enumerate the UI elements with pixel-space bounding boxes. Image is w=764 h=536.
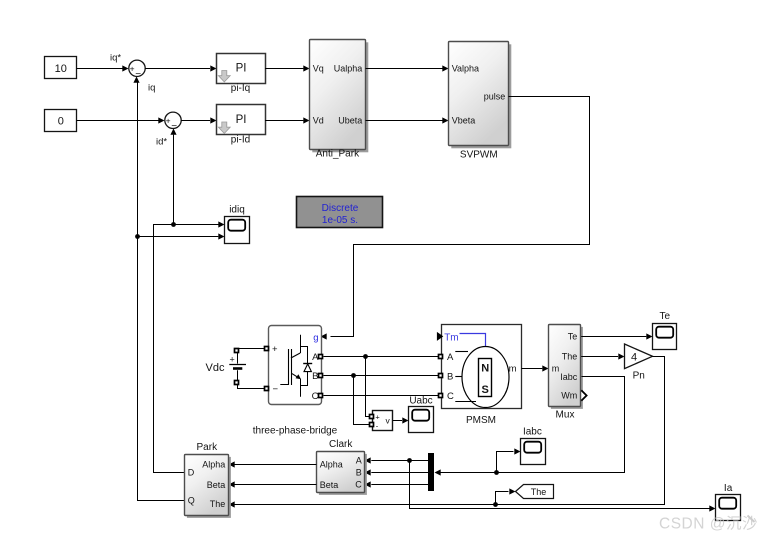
svg-text:D: D xyxy=(188,468,195,478)
svg-text:Uabc: Uabc xyxy=(409,396,432,407)
svg-text:Anti_Park: Anti_Park xyxy=(316,149,360,160)
scope block Ia xyxy=(716,495,741,521)
wire bridge B to PMSM B xyxy=(324,375,439,377)
scope block Te xyxy=(653,324,677,350)
svg-text:Ualpha: Ualpha xyxy=(334,64,363,74)
svg-text:+: + xyxy=(272,344,278,355)
wire Mux Te to Te scope xyxy=(581,333,652,339)
svg-text:Iabc: Iabc xyxy=(523,426,542,437)
svg-text:Mux: Mux xyxy=(556,410,575,421)
svg-text:idiq: idiq xyxy=(229,205,245,216)
svg-text:iq*: iq* xyxy=(110,53,121,64)
svg-text:Valpha: Valpha xyxy=(452,64,479,74)
svg-text:PMSM: PMSM xyxy=(466,415,496,426)
wire iq feedback: Park Q output up to sum1, branch to idiq input 2 xyxy=(133,77,224,501)
svg-text:0: 0 xyxy=(58,115,64,127)
svg-text:S: S xyxy=(482,384,489,396)
wire bridge A to PMSM A xyxy=(324,356,439,358)
svg-text:m: m xyxy=(552,364,560,374)
wire branch The line to Goto tag xyxy=(496,488,516,504)
svg-text:Ia: Ia xyxy=(724,483,733,494)
PI controller block pi-Id xyxy=(217,105,266,135)
motor block PMSM M1 xyxy=(437,325,522,409)
wire The (electrical angle): Pn output to Park The input xyxy=(229,357,665,508)
svg-text:g: g xyxy=(313,333,318,344)
svg-text:Alpha: Alpha xyxy=(202,459,225,469)
svg-text:C: C xyxy=(447,391,454,402)
wire PMSM m to Mux m xyxy=(521,365,548,371)
PI controller block pi-Iq xyxy=(217,54,266,84)
wire const0 to sum2 xyxy=(77,117,165,123)
svg-text:4: 4 xyxy=(631,351,637,363)
svg-text:pi-Id: pi-Id xyxy=(231,135,250,146)
svg-text:Wm: Wm xyxy=(561,391,577,401)
svg-text:A: A xyxy=(447,352,454,363)
subsystem block Clark U4 xyxy=(317,452,367,495)
annotation block Discrete 1e-05 s. (powergui) xyxy=(297,197,383,228)
wire id feedback: Park D output up to idiq input 1, branch to sum2 xyxy=(154,129,225,473)
junction on phase A xyxy=(363,354,368,359)
wire demux to Clark B xyxy=(365,469,429,475)
junction on phase B xyxy=(351,373,356,378)
power converter block three-phase-bridge xyxy=(265,326,323,405)
svg-text:+: + xyxy=(130,63,135,73)
scope block Iabc xyxy=(521,439,546,465)
svg-text:+: + xyxy=(230,355,235,365)
svg-text:Beta: Beta xyxy=(207,480,226,490)
svg-text:B: B xyxy=(312,371,318,382)
svg-text:CSDN @沉沙: CSDN @沉沙 xyxy=(659,515,758,533)
wire Vdc+ to bridge + xyxy=(237,348,265,350)
svg-text:10: 10 xyxy=(55,63,67,75)
wire VM1 to Uabc scope xyxy=(393,417,409,423)
svg-text:+: + xyxy=(375,413,380,422)
svg-text:The: The xyxy=(531,487,547,497)
IGBT/diode icon inside bridge xyxy=(280,335,312,397)
svg-text:Vbeta: Vbeta xyxy=(452,116,476,126)
wire sum2 to PI pi-Id xyxy=(181,117,216,123)
voltage measurement block VM1 xyxy=(370,411,393,431)
svg-text:Tm: Tm xyxy=(444,332,458,343)
svg-text:m: m xyxy=(509,363,517,374)
svg-text:C: C xyxy=(312,391,319,402)
wire Ubeta to SVPWM Vbeta xyxy=(366,117,449,123)
svg-text:Pn: Pn xyxy=(633,371,645,382)
wire demux to Clark A xyxy=(365,457,429,463)
svg-text:Beta: Beta xyxy=(320,480,339,490)
svg-text:Alpha: Alpha xyxy=(320,459,343,469)
svg-text:v: v xyxy=(386,416,391,426)
goto tag The xyxy=(516,485,554,499)
svg-text:Te: Te xyxy=(660,311,671,322)
svg-text:PI: PI xyxy=(236,114,247,126)
svg-text:Clark: Clark xyxy=(329,439,353,450)
svg-text:Vd: Vd xyxy=(313,116,324,126)
svg-text:The: The xyxy=(562,352,578,362)
wire Clark Beta to Park Beta xyxy=(229,481,317,487)
tap phase A to voltage measurement + xyxy=(366,357,370,417)
svg-text:Ubeta: Ubeta xyxy=(338,116,362,126)
sum junction sum1 (iq error) xyxy=(129,60,145,80)
wire Mux Iabc to demux input xyxy=(435,377,625,476)
svg-text:C: C xyxy=(355,479,362,489)
constant block "0" (id reference) xyxy=(45,110,77,132)
wire sum1 to PI pi-Iq xyxy=(145,65,216,71)
svg-text:id*: id* xyxy=(156,137,167,148)
svg-text:N: N xyxy=(481,362,489,374)
wire Clark Alpha to Park Alpha xyxy=(229,461,317,467)
svg-text:pulse: pulse xyxy=(484,92,506,102)
junction on The line xyxy=(493,502,498,507)
scope block Uabc xyxy=(409,407,434,433)
scope block idiq xyxy=(225,217,250,244)
svg-text:A: A xyxy=(356,455,362,465)
svg-text:Discrete: Discrete xyxy=(322,203,359,214)
subsystem block Park U5 xyxy=(185,455,231,518)
wire const10 to sum1 xyxy=(77,65,129,71)
svg-text:Te: Te xyxy=(568,332,578,342)
svg-text:pi-Iq: pi-Iq xyxy=(231,83,250,94)
subsystem block Mux (measurement selector) U3 xyxy=(549,325,587,409)
watermark stroke mark xyxy=(748,516,755,523)
svg-text:+: + xyxy=(166,115,171,125)
junction on phase A tap to Ia xyxy=(407,458,412,463)
svg-text:Park: Park xyxy=(197,442,219,453)
wire demux to Clark C xyxy=(365,481,429,487)
svg-text:Q: Q xyxy=(188,496,195,506)
tap phase B to voltage measurement - xyxy=(354,376,370,425)
svg-text:PI: PI xyxy=(236,62,247,74)
svg-text:The: The xyxy=(210,499,226,509)
sum junction sum2 (id error) xyxy=(165,112,181,132)
wire Mux The to gain Pn xyxy=(581,353,624,359)
constant block "10" (iq reference) xyxy=(45,57,77,79)
junction on Iabc line xyxy=(494,470,499,475)
subsystem block SVPWM U2 xyxy=(449,42,512,149)
wire pulse feedback SVPWM to bridge gate g xyxy=(321,97,590,340)
svg-text:SVPWM: SVPWM xyxy=(460,150,498,161)
demux block (3-phase splitter) xyxy=(428,453,434,491)
wire branch Iabc line to Iabc scope xyxy=(497,448,521,472)
wire phase A to Ia scope xyxy=(410,461,716,512)
svg-text:1e-05 s.: 1e-05 s. xyxy=(322,215,358,226)
wire bridge C to PMSM C xyxy=(324,395,439,397)
svg-text:B: B xyxy=(447,371,453,382)
wire pi-Id to Anti_Park Vd xyxy=(265,117,310,123)
subsystem block Anti_Park U1 xyxy=(310,40,369,153)
wire pi-Iq to Anti_Park Vq xyxy=(265,65,310,71)
DC voltage source Vdc xyxy=(206,349,246,389)
svg-text:Vq: Vq xyxy=(313,64,324,74)
svg-text:Vdc: Vdc xyxy=(206,362,225,374)
svg-text:B: B xyxy=(356,467,362,477)
svg-text:−: − xyxy=(273,384,279,395)
svg-text:iq: iq xyxy=(148,83,155,94)
wire Ualpha to SVPWM Valpha xyxy=(366,65,449,71)
wire Vdc- to bridge - xyxy=(237,388,265,390)
svg-text:Iabc: Iabc xyxy=(560,372,578,382)
gain block Pn value 4 xyxy=(625,344,653,369)
svg-text:three-phase-bridge: three-phase-bridge xyxy=(253,425,338,436)
